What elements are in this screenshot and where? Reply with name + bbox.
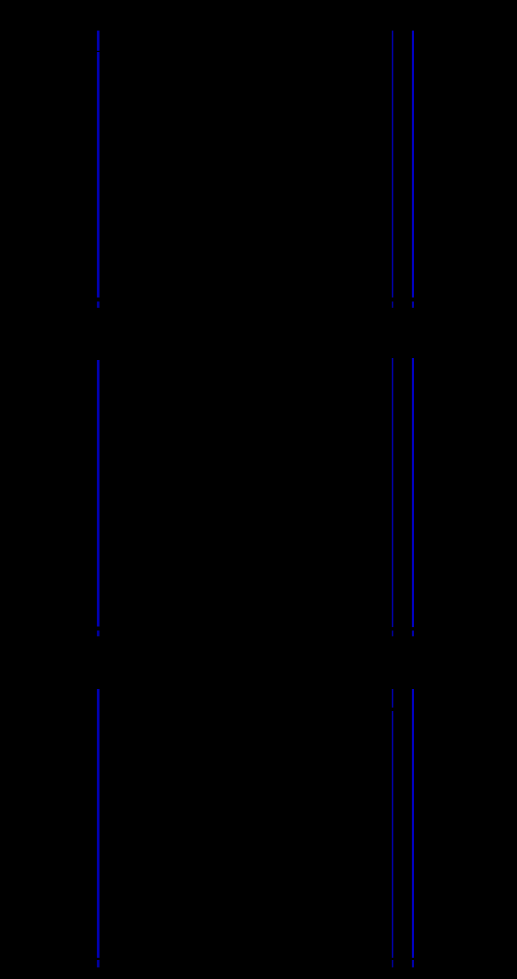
wire W2 segment 3 (inner right net, lower) — [392, 689, 394, 958]
node stub inner-right lower (pin tail) — [392, 960, 394, 967]
wire W3 segment 1 (outer right net, upper) — [412, 31, 414, 298]
wire W1 segment 2 (left net, middle) — [97, 360, 100, 627]
node stub outer-right lower (pin tail) — [412, 960, 414, 967]
node stub inner-right upper (pin tail) — [392, 302, 394, 308]
node stub outer-right upper (pin tail) — [412, 302, 414, 308]
node stub outer-right middle (pin tail) — [412, 631, 414, 637]
node stub left lower (pin tail) — [97, 960, 100, 967]
node stub left upper (pin tail) — [97, 302, 100, 308]
wire W2 segment 1 (inner right net, upper) — [392, 31, 394, 298]
node stub left middle (pin tail) — [97, 631, 100, 637]
wire W1 segment 3 (left net, lower) — [97, 689, 100, 958]
wire W2 segment 2 (inner right net, middle) — [392, 358, 394, 627]
wire W1 segment 1 (left net, upper) — [97, 31, 100, 298]
node stub inner-right middle (pin tail) — [392, 631, 394, 637]
wire W3 segment 3 (outer right net, lower) — [412, 689, 414, 958]
wire W3 segment 2 (outer right net, middle) — [412, 358, 414, 627]
